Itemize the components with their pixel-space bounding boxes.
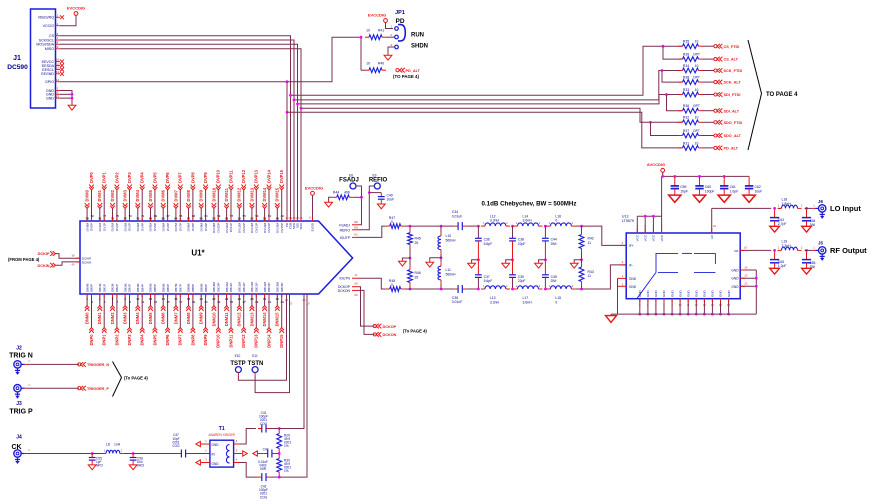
- junction ck top: [278, 427, 281, 430]
- svg-text:DVP11: DVP11: [228, 170, 233, 183]
- resistor R48: [386, 279, 405, 291]
- svg-text:10: 10: [695, 40, 699, 44]
- wire node C44 gnd stub: [539, 260, 546, 262]
- svg-text:GND: GND: [670, 290, 674, 298]
- bracket trig: [113, 362, 122, 397]
- svg-text:GND: GND: [703, 290, 707, 298]
- svg-text:MISO: MISO: [45, 47, 54, 51]
- junction node C44 mid: [544, 258, 547, 261]
- wire T1 p4 to C42: [240, 463, 258, 478]
- svg-text:NPO: NPO: [96, 464, 103, 468]
- svg-text:DB9M: DB9M: [199, 283, 203, 292]
- wire J1 GND join: [60, 91, 72, 104]
- wire DNM14: [264, 294, 266, 306]
- wire ck 4: [133, 453, 177, 455]
- svg-text:REFIO: REFIO: [340, 228, 351, 232]
- svg-text:DNP0: DNP0: [89, 334, 94, 346]
- junction AVCC corner: [661, 175, 664, 178]
- label RUN: [411, 33, 424, 39]
- svg-text:2.7pF: 2.7pF: [778, 222, 787, 226]
- svg-text:SCK_FTDI: SCK_FTDI: [724, 69, 743, 73]
- junction R41: [360, 36, 363, 39]
- wire node C38 gnd stub: [506, 260, 513, 262]
- svg-text:DNM14: DNM14: [262, 312, 267, 327]
- svg-text:DVM5: DVM5: [148, 189, 153, 201]
- ground at R45/R46: [399, 260, 407, 267]
- wire DVP1: [103, 190, 105, 221]
- resistor R40: [361, 62, 386, 73]
- wire DVM8: [188, 209, 190, 222]
- svg-text:DV0P: DV0P: [90, 223, 94, 231]
- svg-text:25: 25: [415, 241, 419, 245]
- port DVM8: [186, 189, 191, 208]
- wire REFIO: [359, 186, 375, 230]
- pin label DV15: [276, 223, 284, 234]
- junction at J1 GND: [71, 93, 74, 100]
- pin IF- of U2: [622, 260, 633, 268]
- wire bottom rail 4: [575, 288, 581, 290]
- svg-text:10: 10: [136, 297, 140, 301]
- capacitor C37: [475, 260, 492, 289]
- svg-text:OPT: OPT: [693, 104, 700, 108]
- resistor R30: [277, 455, 292, 477]
- ground at R42/R43: [570, 262, 578, 269]
- svg-text:J2: J2: [16, 346, 22, 352]
- wire DVP5: [154, 190, 156, 221]
- junction C64: [805, 207, 808, 210]
- svg-text:GND: GND: [629, 277, 637, 281]
- svg-text:DB10M: DB10M: [212, 281, 216, 292]
- svg-text:28: 28: [250, 297, 254, 301]
- wire DNM5: [150, 294, 152, 306]
- capacitor C36: [475, 226, 492, 260]
- pin label DB4: [136, 283, 144, 292]
- junction R45 R46: [409, 257, 412, 260]
- ic U2 outline: [626, 233, 740, 299]
- wire DVP11: [230, 190, 232, 221]
- pin label DV13: [250, 223, 258, 234]
- svg-text:IF-: IF-: [629, 263, 633, 267]
- svg-text:DB15P: DB15P: [280, 282, 284, 292]
- wire DNP12: [243, 294, 245, 328]
- junction AVCC C61: [723, 175, 726, 178]
- pin 1 of T1: [196, 439, 210, 447]
- svg-text:GND: GND: [46, 97, 54, 101]
- pins GND right of U2: [731, 265, 756, 288]
- svg-text:74: 74: [111, 217, 115, 221]
- svg-text:DNM15: DNM15: [275, 312, 280, 327]
- svg-text:62: 62: [187, 217, 191, 221]
- svg-text:GND: GND: [212, 462, 220, 466]
- pins GND bottom of U2: [638, 290, 731, 316]
- svg-text:DV10P: DV10P: [217, 223, 221, 233]
- junction L10 top: [440, 225, 443, 228]
- wire DCKON out: [359, 290, 375, 334]
- svg-text:1.2pF: 1.2pF: [778, 264, 787, 268]
- port DCKIP: [38, 251, 56, 256]
- svg-text:0: 0: [555, 300, 557, 304]
- svg-text:70: 70: [136, 217, 140, 221]
- wire DVP14: [268, 190, 270, 221]
- port DVM12: [237, 187, 242, 208]
- svg-text:DVP7: DVP7: [178, 172, 183, 183]
- wire DNP9: [205, 294, 207, 328]
- svg-text:DV13P: DV13P: [255, 223, 259, 233]
- svg-text:48: 48: [276, 217, 280, 221]
- pin label DB11: [225, 282, 233, 292]
- svg-text:10: 10: [366, 62, 370, 66]
- svg-text:50: 50: [263, 217, 267, 221]
- pin CKN of U1: [307, 294, 310, 306]
- svg-text:L8: L8: [106, 442, 110, 446]
- svg-text:DNM5: DNM5: [148, 312, 153, 324]
- svg-text:12: 12: [149, 297, 153, 301]
- port DVP3: [127, 172, 132, 190]
- svg-text:RUN: RUN: [411, 33, 424, 39]
- svg-text:DNP8: DNP8: [190, 334, 195, 346]
- wire DVP10: [217, 190, 219, 221]
- wire DNP4: [141, 294, 143, 328]
- wire U2 gnd rail: [611, 313, 756, 315]
- svg-text:CS_ALT: CS_ALT: [724, 58, 739, 62]
- ground at U2: [606, 314, 617, 322]
- pin RF of U2: [735, 245, 753, 253]
- junction U2 right gnd: [755, 277, 758, 288]
- svg-text:10pF: 10pF: [680, 190, 688, 194]
- svg-text:M2: M2: [354, 220, 358, 224]
- wire RF path 2: [805, 249, 813, 251]
- capacitor C63: [770, 208, 787, 232]
- svg-text:10: 10: [695, 116, 699, 120]
- svg-text:A6: A6: [354, 293, 358, 297]
- svg-text:52: 52: [250, 217, 254, 221]
- wire R45 gnd stub: [402, 258, 410, 260]
- ground at JP1: [384, 54, 392, 61]
- svg-text:DV9P: DV9P: [204, 223, 208, 231]
- pin SDO of U1: [299, 216, 303, 230]
- pin numbers DB13: [250, 297, 258, 304]
- svg-text:51: 51: [268, 214, 272, 218]
- svg-text:DVM13: DVM13: [249, 187, 254, 201]
- svg-text:R41: R41: [378, 29, 384, 33]
- port DNM6: [161, 306, 166, 325]
- port DVM14: [262, 187, 267, 208]
- svg-text:TO PAGE 4: TO PAGE 4: [766, 92, 798, 98]
- svg-text:DB2P: DB2P: [115, 284, 119, 292]
- svg-text:EVCCDIG: EVCCDIG: [305, 186, 323, 191]
- port DNP1: [102, 328, 107, 346]
- svg-text:DCKIP: DCKIP: [38, 252, 50, 256]
- svg-text:DCKON: DCKON: [338, 289, 351, 293]
- transformer T1: [209, 426, 236, 467]
- svg-text:DB5P: DB5P: [153, 284, 157, 292]
- svg-text:5.6pF: 5.6pF: [484, 279, 493, 283]
- svg-text:MOSI/SDA: MOSI/SDA: [36, 43, 54, 47]
- wire DVP13: [255, 190, 257, 221]
- pin 2 of T1: [205, 449, 207, 453]
- port DVP1: [102, 172, 107, 190]
- port DNM13: [249, 306, 254, 327]
- junction PD branch: [286, 111, 289, 114]
- junction R43 bottom: [580, 288, 583, 291]
- pin label DV6: [161, 223, 169, 232]
- svg-text:DV11P: DV11P: [229, 223, 233, 232]
- inductor L19: [778, 240, 803, 251]
- pin numbers DB14: [263, 297, 271, 304]
- pin DCKON of U1: [338, 289, 359, 297]
- wire IF+ to U2: [582, 226, 627, 245]
- svg-text:TSTN: TSTN: [248, 361, 264, 367]
- junction C63: [773, 207, 776, 210]
- svg-text:DNP5: DNP5: [152, 334, 157, 346]
- svg-text:DVM10: DVM10: [211, 187, 216, 201]
- pin numbers DV11: [225, 214, 233, 221]
- svg-text:560nH: 560nH: [446, 238, 457, 242]
- svg-text:M1: M1: [354, 226, 358, 230]
- inductor L13: [481, 284, 510, 305]
- svg-text:E10: E10: [235, 354, 241, 358]
- wire SDO branch: [301, 108, 683, 122]
- svg-text:DV5P: DV5P: [153, 223, 157, 231]
- svg-text:DNP13: DNP13: [254, 334, 259, 348]
- svg-text:DNI: DNI: [551, 279, 557, 283]
- svg-text:75: 75: [116, 214, 120, 218]
- resistor R34 / port SCK_FTDI: [679, 64, 743, 73]
- junction C56: [132, 452, 135, 455]
- svg-text:17: 17: [179, 300, 183, 304]
- svg-text:DB13P: DB13P: [255, 282, 259, 292]
- svg-text:11: 11: [588, 274, 592, 278]
- svg-text:JP1: JP1: [395, 10, 405, 16]
- junction node C36 top: [477, 225, 480, 228]
- wire DVM11: [226, 209, 228, 222]
- port TRIGGER_N: [78, 362, 110, 367]
- wire to C40: [369, 192, 381, 194]
- wire DNM3: [124, 294, 126, 306]
- svg-text:SDI_ALT: SDI_ALT: [724, 109, 740, 113]
- port DVM9: [199, 189, 204, 208]
- pin label DB12: [238, 281, 246, 292]
- svg-text:1nH: 1nH: [114, 442, 121, 446]
- svg-text:20: 20: [200, 297, 204, 301]
- svg-text:GND: GND: [662, 290, 666, 298]
- junction C55: [91, 452, 94, 455]
- port DNM1: [97, 306, 102, 325]
- pin label DV8: [187, 223, 195, 232]
- ground at node C36: [468, 262, 476, 269]
- port DVM4: [135, 189, 140, 208]
- wire U2 right gnd: [755, 270, 757, 314]
- svg-text:VCC: VCC: [652, 234, 656, 241]
- resistor R43: [579, 253, 594, 290]
- pin VBUS/RQ of J1: [38, 14, 64, 20]
- pin numbers DB1: [99, 297, 106, 304]
- svg-text:16: 16: [174, 297, 178, 301]
- svg-text:DNP15: DNP15: [279, 334, 284, 348]
- resistor R35 / port CS_FTDI: [679, 40, 740, 49]
- wire DCKIP: [56, 254, 81, 259]
- pin label DV11: [225, 222, 233, 232]
- pin label DB13: [250, 281, 258, 292]
- svg-text:30: 30: [263, 297, 267, 301]
- svg-text:63: 63: [192, 214, 196, 218]
- port TRIGGER_P: [78, 386, 110, 391]
- port DNP11: [228, 328, 233, 348]
- wire top rail 2: [441, 225, 454, 227]
- svg-text:DV12M: DV12M: [238, 223, 242, 234]
- wire L10/L11 gnd stub: [430, 254, 441, 262]
- pin EEVCC of J1: [42, 58, 64, 64]
- svg-text:3.6nH: 3.6nH: [523, 219, 533, 223]
- svg-text:79: 79: [90, 214, 94, 218]
- svg-text:SDI_FTDI: SDI_FTDI: [724, 93, 741, 97]
- wire DNM6: [162, 294, 164, 306]
- inductor L18: [778, 198, 803, 209]
- port DVM7: [173, 189, 178, 208]
- capacitor C60: [693, 176, 714, 202]
- wire PD to page4: [287, 112, 683, 148]
- svg-text:DV7P: DV7P: [179, 223, 183, 231]
- pin numbers DV6: [162, 214, 170, 221]
- svg-text:22: 22: [212, 297, 216, 301]
- pin label DV10: [212, 223, 220, 234]
- svg-text:LT5579: LT5579: [622, 219, 634, 223]
- resistor R36 / port SDI_ALT: [679, 104, 740, 113]
- port DNM5: [148, 306, 153, 325]
- svg-text:DVM3: DVM3: [123, 189, 128, 201]
- svg-text:15: 15: [56, 94, 60, 98]
- svg-text:DB7M: DB7M: [174, 283, 178, 292]
- wire node C36 gnd stub: [472, 260, 479, 262]
- pin numbers DB10: [212, 297, 220, 304]
- wire FSADJ: [356, 186, 362, 225]
- svg-text:CS_FTDI: CS_FTDI: [724, 45, 740, 49]
- svg-text:DNM8: DNM8: [186, 312, 191, 324]
- port DNM7: [173, 306, 178, 325]
- svg-text:DNM13: DNM13: [249, 312, 254, 327]
- wire R44 to gnd: [329, 197, 333, 200]
- svg-text:1%: 1%: [284, 469, 289, 473]
- svg-text:DV0M: DV0M: [85, 223, 89, 232]
- wire SDI branch: [298, 95, 683, 104]
- pin GND1 of U2: [618, 274, 637, 281]
- svg-text:10: 10: [695, 88, 699, 92]
- port PD_ALT at JP1: [396, 68, 421, 73]
- svg-text:DVM0: DVM0: [85, 189, 90, 201]
- ground at L10/L11: [426, 261, 434, 268]
- port DVP5: [152, 172, 157, 190]
- junction R47 out: [409, 225, 412, 228]
- svg-text:DV1M: DV1M: [98, 223, 102, 232]
- svg-text:DNM0: DNM0: [85, 312, 90, 324]
- svg-text:GND: GND: [638, 290, 642, 298]
- svg-text:E11: E11: [252, 354, 258, 358]
- wire IF- to U2: [582, 265, 627, 289]
- svg-text:TSTP: TSTP: [230, 361, 245, 367]
- svg-text:OPT: OPT: [693, 76, 700, 80]
- pin label DB7: [174, 283, 182, 292]
- svg-text:TRIG P: TRIG P: [9, 409, 33, 416]
- svg-text:10: 10: [695, 141, 699, 145]
- port DNP10: [216, 328, 221, 348]
- svg-text:DV14M: DV14M: [263, 223, 267, 234]
- label LO Input: [830, 204, 861, 213]
- svg-text:DVM14: DVM14: [262, 187, 267, 201]
- svg-text:J3: J3: [16, 401, 22, 407]
- svg-text:DNI: DNI: [551, 242, 557, 246]
- wire JP1 pin3 to gnd: [388, 47, 395, 54]
- svg-text:DVP2: DVP2: [114, 172, 119, 183]
- wire top rail 3: [466, 225, 478, 227]
- capacitor C59: [669, 176, 688, 202]
- connector J2: [9, 346, 33, 375]
- svg-text:24: 24: [225, 297, 229, 301]
- pin MOSI/SDA of J1: [36, 41, 60, 47]
- port DNP6: [165, 328, 170, 346]
- wire DVM0: [86, 209, 88, 222]
- pin LO of U2: [710, 208, 717, 239]
- port DNM3: [123, 306, 128, 325]
- svg-text:5.6pF: 5.6pF: [484, 242, 493, 246]
- inductor L15: [546, 284, 575, 305]
- svg-text:DV4P: DV4P: [140, 223, 144, 231]
- svg-text:VCC: VCC: [660, 234, 664, 241]
- svg-text:GND: GND: [719, 290, 723, 298]
- svg-text:DNM6: DNM6: [161, 312, 166, 324]
- junction node C37 bottom: [477, 288, 480, 291]
- svg-text:DNP12: DNP12: [241, 334, 246, 348]
- junction C65: [773, 249, 776, 252]
- port DVP6: [165, 172, 170, 190]
- svg-text:DB9P: DB9P: [204, 284, 208, 292]
- svg-text:DVP1: DVP1: [102, 172, 107, 183]
- svg-text:PD_ALT: PD_ALT: [406, 69, 421, 73]
- pin FSADJ of U1: [339, 220, 358, 228]
- jumper JP1 pins: [395, 25, 406, 41]
- svg-text:DVP10: DVP10: [216, 169, 221, 183]
- svg-text:(FROM PAGE 4): (FROM PAGE 4): [8, 257, 40, 262]
- svg-text:19: 19: [192, 300, 196, 304]
- svg-text:11: 11: [141, 300, 144, 304]
- pin EESDA of J1: [42, 62, 64, 68]
- resistor R31 / port PD_ALT: [679, 141, 739, 150]
- svg-text:R40: R40: [378, 62, 384, 66]
- pin TSTN of U1: [289, 294, 292, 306]
- svg-text:OPT: OPT: [693, 129, 700, 133]
- svg-text:49: 49: [281, 214, 285, 218]
- pin numbers DB0: [86, 297, 93, 304]
- svg-text:DVM1: DVM1: [97, 189, 102, 201]
- svg-text:33: 33: [281, 300, 285, 304]
- svg-text:21: 21: [205, 300, 209, 304]
- svg-text:DV5M: DV5M: [149, 223, 153, 232]
- svg-text:A5: A5: [354, 282, 358, 286]
- ground at node C38: [502, 262, 510, 269]
- svg-text:DNP3: DNP3: [127, 334, 132, 346]
- wire ck 3: [124, 453, 133, 455]
- wire LO path 3: [805, 207, 813, 209]
- junction R42 R43: [580, 258, 583, 261]
- pin numbers DB3: [124, 297, 131, 304]
- port DVP0: [89, 172, 94, 190]
- svg-text:3.3nH: 3.3nH: [490, 300, 500, 304]
- pin label DV1: [98, 223, 106, 232]
- svg-text:GND: GND: [646, 290, 650, 298]
- pin numbers DB7: [174, 297, 182, 304]
- svg-text:0.01uF: 0.01uF: [452, 214, 463, 218]
- wire DNP5: [154, 294, 156, 328]
- svg-text:PD_ALT: PD_ALT: [724, 147, 739, 151]
